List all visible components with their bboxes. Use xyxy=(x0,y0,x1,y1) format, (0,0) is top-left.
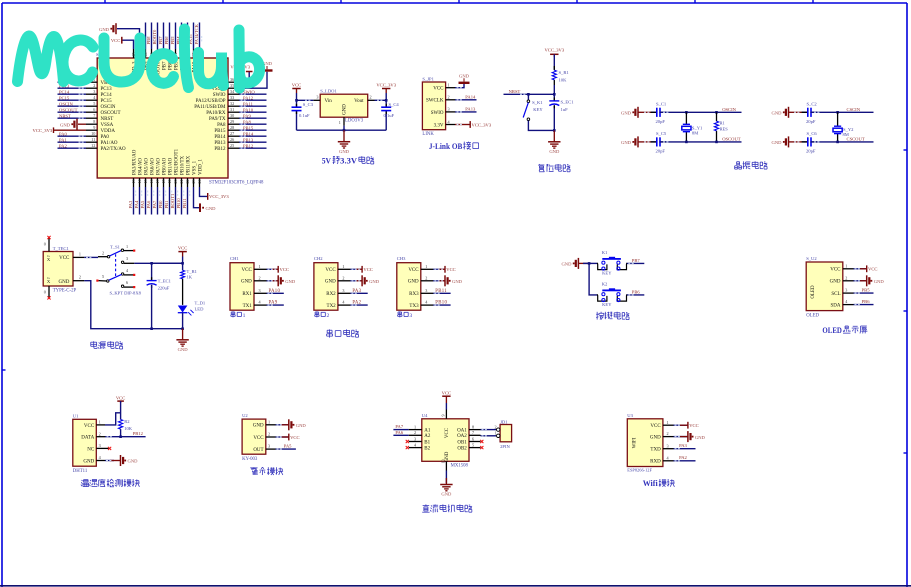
wire net PA0 xyxy=(58,135,87,137)
svg-text:OA1: OA1 xyxy=(457,429,467,434)
power VCC_3V3 at VDDA xyxy=(53,127,55,133)
wire net OSCIN xyxy=(58,105,87,107)
wire node down to K2 xyxy=(589,263,597,295)
svg-text:3: 3 xyxy=(414,436,416,441)
svg-text:PA5/AO: PA5/AO xyxy=(144,158,149,175)
wire VSS_3 to GND xyxy=(117,29,140,49)
power VCC_3V3 reset xyxy=(550,53,558,55)
svg-text:3: 3 xyxy=(316,95,318,100)
svg-text:GND: GND xyxy=(241,280,252,285)
wire CH1 VCC xyxy=(267,268,279,270)
logo letter U xyxy=(104,38,140,82)
svg-text:DATA: DATA xyxy=(81,436,94,441)
svg-text:PA4: PA4 xyxy=(134,200,139,208)
mcu left pin 10 stub xyxy=(86,135,97,137)
svg-text:T_D1: T_D1 xyxy=(195,300,206,305)
svg-text:VDD_1: VDD_1 xyxy=(198,159,203,175)
svg-text:2: 2 xyxy=(495,424,497,429)
svg-text:10K: 10K xyxy=(559,78,568,83)
svg-text:DHT11: DHT11 xyxy=(73,469,88,474)
JP1 pin 2 stub xyxy=(446,99,455,101)
svg-text:MX1508: MX1508 xyxy=(451,464,469,469)
junction Y1 top xyxy=(685,111,688,114)
svg-text:0.1uF: 0.1uF xyxy=(299,113,310,118)
mcu bottom pin 13 stub xyxy=(133,178,135,187)
resistor R1 stubs xyxy=(553,66,555,70)
svg-text:1: 1 xyxy=(845,263,847,268)
ground GND bottom right xyxy=(199,203,201,212)
mcu left pin 3 stub xyxy=(86,93,97,95)
ground GND dht xyxy=(120,455,122,466)
svg-text:NRST: NRST xyxy=(101,117,114,122)
junction reset gnd xyxy=(553,129,556,132)
svg-text:PA3/RX/AO: PA3/RX/AO xyxy=(132,149,137,175)
capacitor C3 xyxy=(296,104,298,107)
svg-text:PB14: PB14 xyxy=(243,131,254,136)
wire K1 out xyxy=(627,262,644,264)
svg-text:VCC_3V3: VCC_3V3 xyxy=(376,82,396,87)
U4 bottom pin GND xyxy=(445,461,447,470)
svg-text:TYPE-C-2P: TYPE-C-2P xyxy=(53,288,77,293)
U2 hall pin 3 stub xyxy=(266,448,276,450)
wire net PA10 xyxy=(239,111,267,113)
wire net PB5 top xyxy=(175,23,177,50)
title button circuit xyxy=(596,312,598,320)
svg-text:CSCOUT: CSCOUT xyxy=(847,136,865,141)
svg-text:RES: RES xyxy=(720,126,729,131)
label serial 1 xyxy=(231,311,235,313)
CH1 pin 3 stub xyxy=(254,292,267,294)
svg-text:S_EC1: S_EC1 xyxy=(561,99,575,104)
svg-text:16: 16 xyxy=(149,180,154,184)
svg-text:GND: GND xyxy=(561,262,572,267)
svg-text:KY-003: KY-003 xyxy=(242,457,258,462)
logo letter b bowl xyxy=(240,57,260,83)
svg-text:13: 13 xyxy=(131,180,136,184)
svg-text:OB2: OB2 xyxy=(457,447,467,452)
wire oled sda xyxy=(854,304,874,306)
U2 hall pin 2 stub xyxy=(266,436,276,438)
svg-text:9: 9 xyxy=(441,415,446,417)
svg-text:3: 3 xyxy=(425,288,427,293)
svg-text:PA8: PA8 xyxy=(217,123,226,128)
svg-text:OSCIN: OSCIN xyxy=(101,105,116,110)
pushbutton K2 left circles xyxy=(602,293,605,296)
svg-text:PB10/TX: PB10/TX xyxy=(180,155,185,175)
resistor R feedback stubs xyxy=(716,112,718,121)
junction NRST node xyxy=(553,93,556,96)
svg-text:PB15: PB15 xyxy=(243,125,254,130)
wire wifi rxd xyxy=(674,460,696,462)
wire vin left xyxy=(297,99,314,101)
power VCC CH3 xyxy=(444,266,446,273)
wire hall gnd xyxy=(276,424,289,426)
wire wifi vcc xyxy=(674,424,688,426)
svg-text:26: 26 xyxy=(230,137,234,142)
wire dht vcc step xyxy=(105,413,121,425)
svg-text:2: 2 xyxy=(342,275,344,280)
wire OA2 to JD1 xyxy=(481,435,497,437)
svg-text:2: 2 xyxy=(268,432,270,437)
svg-text:TX3: TX3 xyxy=(409,304,419,309)
resistor R feedback xyxy=(714,121,718,131)
wire oled vcc xyxy=(854,268,867,270)
ground GND wifi xyxy=(687,431,689,442)
svg-text:KEY: KEY xyxy=(533,107,543,112)
power VCC CH1 xyxy=(277,266,279,273)
TEC1 pin 1 stub xyxy=(73,256,84,258)
wire VDD_3 to VCC xyxy=(122,40,134,49)
pushbutton K2 cap xyxy=(602,290,621,292)
svg-text:1: 1 xyxy=(259,264,261,269)
svg-text:29: 29 xyxy=(230,119,234,124)
U4 pin 4 stub xyxy=(409,447,422,449)
svg-text:PB7: PB7 xyxy=(162,61,167,70)
svg-text:PC14: PC14 xyxy=(101,93,113,98)
junction led rail xyxy=(181,327,184,330)
wire net PB10 bottom xyxy=(181,187,183,215)
svg-text:6: 6 xyxy=(126,280,128,285)
svg-text:PA10/RX: PA10/RX xyxy=(206,111,226,116)
wire net PA15 top xyxy=(193,23,195,50)
svg-text:CSCIN: CSCIN xyxy=(847,107,861,112)
wire node to K1 xyxy=(589,262,597,264)
svg-text:3.3V: 3.3V xyxy=(434,123,444,128)
wire motor PA6 xyxy=(393,434,408,436)
svg-text:PA10: PA10 xyxy=(243,107,254,112)
resistor R2 xyxy=(119,420,123,430)
svg-text:GND: GND xyxy=(772,111,783,116)
svg-text:VSS_1: VSS_1 xyxy=(192,160,197,175)
mcu bottom pin 22 stub xyxy=(187,178,189,187)
svg-text:GND: GND xyxy=(339,149,350,154)
mcu bottom pin 23 stub xyxy=(193,178,195,187)
svg-text:STM32F103C8T6_LQFP48: STM32F103C8T6_LQFP48 xyxy=(209,180,264,185)
wire net PB9 top xyxy=(145,23,147,50)
svg-text:VCC: VCC xyxy=(111,38,120,43)
svg-text:A2: A2 xyxy=(424,434,431,439)
mcu top pin 40 stub xyxy=(181,49,183,58)
pushbutton K1 right circles xyxy=(617,261,620,264)
crystal Y1 xyxy=(683,123,690,125)
svg-text:VCC: VCC xyxy=(59,256,70,261)
svg-text:PB8: PB8 xyxy=(146,36,151,45)
JP1 pin 1 stub xyxy=(446,87,455,89)
no connect bottom xyxy=(47,296,50,299)
sheet border left xyxy=(1,3,3,587)
mcu right pin 35 stub xyxy=(228,87,239,89)
svg-text:GND: GND xyxy=(369,279,380,284)
wire net PB14 xyxy=(239,135,267,137)
CH1 pin 2 stub xyxy=(254,280,267,282)
svg-text:TXD: TXD xyxy=(650,448,661,453)
junction vcc branch xyxy=(181,262,184,265)
no connect B1 xyxy=(406,440,409,443)
junction data node xyxy=(119,435,122,438)
wire R1 to node xyxy=(553,85,555,94)
U1 dht pin 2 stub xyxy=(96,436,105,438)
svg-text:S_C3: S_C3 xyxy=(303,102,314,107)
wire net VBAT xyxy=(58,81,87,83)
svg-text:GND: GND xyxy=(253,424,264,429)
pushbutton K2 left contact xyxy=(597,294,607,301)
junction R feedback top xyxy=(715,111,718,114)
svg-text:2: 2 xyxy=(93,83,95,88)
U4 pin 3 stub xyxy=(409,441,422,443)
wire OSCOUT rail xyxy=(659,141,741,143)
svg-text:GND: GND xyxy=(325,280,336,285)
U4 pin 7 stub xyxy=(469,434,481,436)
wire node down to K1 xyxy=(527,94,529,100)
LDO pin 1 stub xyxy=(343,117,345,125)
svg-text:2: 2 xyxy=(667,431,669,436)
svg-text:PA2: PA2 xyxy=(59,143,67,148)
wire net PA6 bottom xyxy=(151,187,153,215)
svg-text:VCC_3V3: VCC_3V3 xyxy=(33,128,53,133)
CH2 pin 3 stub xyxy=(338,292,351,294)
wire motor vcc xyxy=(445,403,447,410)
wire net PB15 xyxy=(239,129,267,131)
svg-text:OSCOUT: OSCOUT xyxy=(722,136,741,141)
mcu bottom pin 24 stub xyxy=(199,178,201,187)
svg-text:OSCIN: OSCIN xyxy=(722,107,736,112)
wire ec1 to rail xyxy=(151,285,153,329)
svg-text:T_EC1: T_EC1 xyxy=(158,278,172,283)
no connect B2 xyxy=(406,446,409,449)
junction key node xyxy=(588,262,591,265)
svg-text:PB13: PB13 xyxy=(214,141,226,146)
svg-text:CH2: CH2 xyxy=(314,256,323,261)
mcu left pin 9 stub xyxy=(86,129,97,131)
mcu top pin 46 stub xyxy=(145,49,147,58)
svg-text:20: 20 xyxy=(173,180,178,184)
crystal Y2 wires xyxy=(837,112,839,126)
junction K1 top xyxy=(527,93,530,96)
ground GND reset xyxy=(553,130,555,141)
svg-text:BOOT1: BOOT1 xyxy=(170,193,175,209)
svg-text:GND: GND xyxy=(452,279,463,284)
svg-text:PB6: PB6 xyxy=(632,289,641,294)
title temperature humidity module xyxy=(81,480,84,481)
wire net BOOT0 top xyxy=(157,23,159,50)
wire net PA1 xyxy=(58,141,87,143)
svg-text:24: 24 xyxy=(197,180,202,184)
wire vcc to R2 xyxy=(120,401,122,419)
svg-text:VCC_3V3: VCC_3V3 xyxy=(544,48,564,53)
capacitor EC1 wires xyxy=(553,94,555,101)
svg-text:33: 33 xyxy=(230,95,234,100)
wire net PC13 xyxy=(58,87,87,89)
wire net PA8 xyxy=(239,123,267,125)
wire CH3 PB10 xyxy=(433,304,450,306)
svg-text:NRST: NRST xyxy=(509,89,521,94)
U1 dht pin 1 stub xyxy=(96,424,105,426)
power VCC motor xyxy=(442,395,450,397)
svg-text:PA1/AO: PA1/AO xyxy=(101,141,118,146)
wire hall out xyxy=(276,448,296,450)
svg-text:VCC: VCC xyxy=(178,246,187,251)
junction vout xyxy=(385,99,388,102)
svg-text:BOOT0: BOOT0 xyxy=(152,29,157,45)
svg-text:RX1: RX1 xyxy=(242,292,252,297)
svg-text:S_K1: S_K1 xyxy=(532,100,543,105)
power VCC 5V input xyxy=(296,89,298,94)
wire gnd to key node xyxy=(578,262,589,264)
junction vin xyxy=(295,99,298,102)
svg-text:2: 2 xyxy=(370,95,372,100)
wire gnd to C2 xyxy=(789,111,803,113)
svg-text:PC15: PC15 xyxy=(101,99,113,104)
svg-text:7: 7 xyxy=(93,113,95,118)
svg-text:S_C5: S_C5 xyxy=(656,131,667,136)
svg-text:20pF: 20pF xyxy=(806,149,816,154)
svg-text:A1: A1 xyxy=(424,429,431,434)
power VCC hall xyxy=(288,434,290,441)
svg-text:1: 1 xyxy=(425,264,427,269)
svg-text:VCC: VCC xyxy=(242,268,253,273)
svg-text:2: 2 xyxy=(259,275,261,280)
wire CH3 VCC xyxy=(433,268,445,270)
svg-text:VCC_3V3: VCC_3V3 xyxy=(209,194,229,199)
mcu top pin 41 stub xyxy=(175,49,177,58)
svg-text:1: 1 xyxy=(495,431,497,436)
mcu bottom pin 15 stub xyxy=(145,178,147,187)
mcu right pin 29 stub xyxy=(228,123,239,125)
CH2 pin 1 stub xyxy=(338,268,351,270)
wire VDDA to vcc xyxy=(54,129,87,131)
svg-text:NC: NC xyxy=(87,447,95,452)
power VCC oled xyxy=(866,265,868,272)
mcu left pin 6 stub xyxy=(86,111,97,113)
svg-text:PA2/TX/AO: PA2/TX/AO xyxy=(101,147,126,152)
wire vcc to switch xyxy=(84,256,98,258)
svg-text:PB11/RX: PB11/RX xyxy=(186,155,191,175)
mcu bottom pin 17 stub xyxy=(157,178,159,187)
CH3 pin 1 stub xyxy=(421,268,434,270)
svg-text:PA14: PA14 xyxy=(465,95,476,100)
svg-text:PA5: PA5 xyxy=(140,200,145,208)
U3 pin 2 stub xyxy=(663,436,674,438)
switch S1 pin2 lead xyxy=(98,256,108,258)
svg-text:VCC: VCC xyxy=(868,267,877,272)
svg-text:OB1: OB1 xyxy=(457,440,467,445)
wire gnd down xyxy=(84,281,151,329)
mcu bottom pin 16 stub xyxy=(151,178,153,187)
svg-text:PA9: PA9 xyxy=(243,113,251,118)
svg-text:3: 3 xyxy=(845,288,847,293)
svg-text:VCC_3V3: VCC_3V3 xyxy=(472,122,492,127)
svg-text:19: 19 xyxy=(167,180,172,184)
pushbutton K2 right circles xyxy=(617,293,620,296)
mcu top pin 37 stub xyxy=(199,49,201,58)
svg-text:5: 5 xyxy=(102,274,104,279)
svg-text:18: 18 xyxy=(161,180,166,184)
connector TEC1 body xyxy=(43,252,73,287)
U4 pin 6 stub xyxy=(469,441,481,443)
wire CH3 PB11 xyxy=(433,292,450,294)
svg-text:11: 11 xyxy=(91,137,95,142)
svg-text:PB0: PB0 xyxy=(158,200,163,209)
mcu left pin 8 stub xyxy=(86,123,97,125)
svg-text:PA3: PA3 xyxy=(679,443,687,448)
svg-text:VDDA: VDDA xyxy=(101,129,116,134)
sheet border top xyxy=(2,2,907,4)
svg-text:PA12: PA12 xyxy=(243,95,254,100)
wire VSSA to gnd xyxy=(78,123,86,125)
mcu right pin 28 stub xyxy=(228,129,239,131)
svg-text:2: 2 xyxy=(414,430,416,435)
label serial 3 xyxy=(398,311,402,313)
ground GND CH1 xyxy=(277,275,279,286)
svg-text:2: 2 xyxy=(79,275,81,280)
power VCC top left xyxy=(121,37,123,44)
right zone tick 2 xyxy=(904,310,908,312)
svg-text:PA11/USB/DM: PA11/USB/DM xyxy=(194,105,226,110)
svg-text:KEY: KEY xyxy=(602,302,612,307)
svg-text:21: 21 xyxy=(179,180,184,184)
svg-text:PB0/AO: PB0/AO xyxy=(162,157,167,175)
svg-text:PB10: PB10 xyxy=(435,301,447,306)
svg-text:1: 1 xyxy=(99,420,101,425)
CH3 pin 2 stub xyxy=(421,280,434,282)
svg-text:PA6: PA6 xyxy=(146,200,151,208)
svg-text:3: 3 xyxy=(448,107,450,112)
right zone tick 3 xyxy=(904,452,908,454)
svg-text:VCC: VCC xyxy=(689,423,698,428)
svg-text:PC15: PC15 xyxy=(59,95,70,100)
svg-text:PB13: PB13 xyxy=(243,137,254,142)
svg-text:PA9/TX: PA9/TX xyxy=(209,117,226,122)
wire CH3 GND xyxy=(433,280,445,282)
svg-text:6: 6 xyxy=(93,107,95,112)
wire ec1 branch xyxy=(151,263,153,280)
svg-text:PA7: PA7 xyxy=(395,424,403,429)
svg-text:PA11: PA11 xyxy=(243,101,254,106)
wire net PB3 top xyxy=(187,23,189,50)
wire CSCOUT rail xyxy=(810,141,873,143)
logo letter M xyxy=(18,36,64,82)
label serial 2 xyxy=(315,311,319,313)
svg-text:PA3: PA3 xyxy=(352,289,361,294)
svg-text:GND: GND xyxy=(549,149,560,154)
U4 top pin VCC xyxy=(445,410,447,419)
svg-text:PA12/USB/DP: PA12/USB/DP xyxy=(196,99,226,104)
svg-text:3: 3 xyxy=(667,443,669,448)
svg-text:T_S1: T_S1 xyxy=(110,245,121,250)
no connect pin4 xyxy=(133,274,135,276)
mcu right pin 32 stub xyxy=(228,105,239,107)
wire net OSCOUT xyxy=(58,111,87,113)
svg-text:PB15: PB15 xyxy=(214,129,226,134)
svg-text:GND: GND xyxy=(128,459,139,464)
capacitor EC1 xyxy=(553,98,555,101)
ground GND xtal2 top xyxy=(788,107,790,118)
CH1 pin 4 stub xyxy=(254,304,267,306)
svg-text:S_C2: S_C2 xyxy=(807,101,818,106)
svg-text:PB2/BOOT1: PB2/BOOT1 xyxy=(174,148,179,175)
svg-text:VCC: VCC xyxy=(363,267,372,272)
U3 pin 1 stub xyxy=(663,424,674,426)
svg-text:VCC: VCC xyxy=(290,435,299,440)
wire net BOOT1 bottom xyxy=(175,187,177,215)
mcu bottom pin 18 stub xyxy=(163,178,165,187)
svg-text:GND: GND xyxy=(83,459,94,464)
svg-text:OLED: OLED xyxy=(806,313,819,318)
mcu top pin 38 stub xyxy=(193,49,195,58)
switch S1 pin6 xyxy=(121,285,123,287)
svg-text:GND: GND xyxy=(99,27,110,32)
svg-text:PA2: PA2 xyxy=(679,455,687,460)
